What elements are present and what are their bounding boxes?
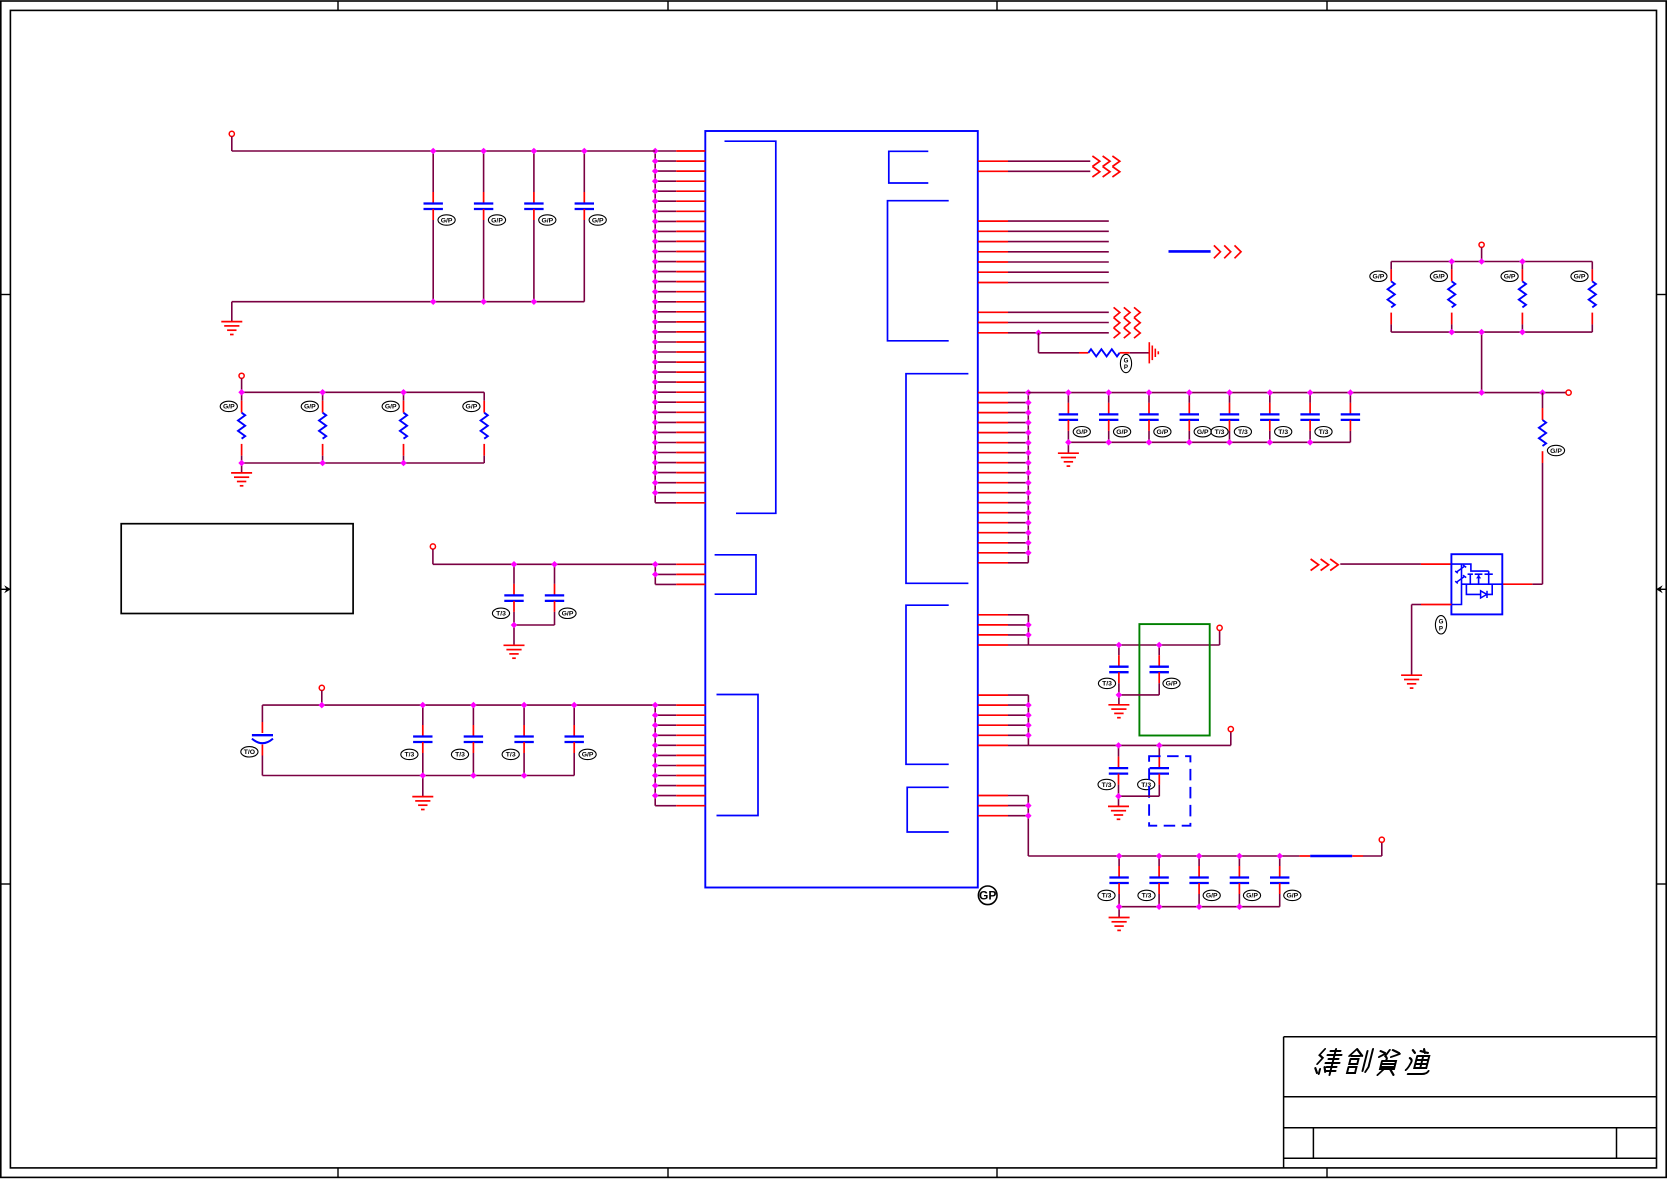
capacitor C7 polarized [241,705,273,775]
capacitor C4 [575,151,607,302]
svg-text:T/3: T/3 [1319,429,1329,436]
ground bottom bank [1109,918,1130,931]
svg-text:G/P: G/P [1433,274,1445,281]
wire middle caps ground link [514,624,555,626]
U1 right pin group 5 pins [978,615,1028,645]
junctions resistor bank top [238,389,406,396]
svg-text:T/3: T/3 [496,611,506,618]
U1 inner section bracket 2 [715,555,756,594]
capacitor C2 [474,151,506,302]
junctions left group 1 [652,148,659,496]
node long rail terminal [1566,390,1571,395]
resistor R6 [1370,262,1395,333]
capacitor C13 [1099,393,1131,443]
wire bottom bank ground rail [1119,906,1280,908]
capacitor C9 [451,705,483,775]
U1 right pin group 2 pins [978,221,1109,282]
junction R3 tap [1035,330,1042,337]
U1 right pin group 6 pins [978,695,1028,745]
svg-text:G/P: G/P [592,217,604,224]
wire resistor bank bottom rail [242,462,485,464]
capacitor C24 [1098,856,1129,907]
ground top-left bank [221,322,242,335]
ground Q1 source [1401,675,1422,688]
wire Q1 source to ground [1421,604,1451,606]
U1 inner section bracket 1 [725,141,776,513]
capacitor C22 [1098,745,1128,796]
inductor bead stub [1299,855,1310,857]
svg-text:T/3: T/3 [1215,429,1225,436]
svg-text:G/P: G/P [1157,429,1169,436]
junction green ground node [1116,692,1123,699]
U1 right pin group 3 pins [978,312,1109,333]
svg-text:G/P: G/P [1076,429,1088,436]
capacitor C15 [1180,393,1229,443]
svg-text:G/P: G/P [1504,274,1516,281]
dashed option box [1149,756,1190,826]
node green box terminal [1217,625,1222,630]
U1 right pin group 7 pins [978,796,1028,816]
resistor R1 [220,392,245,463]
bus stub blue off-page [1169,250,1211,253]
wire bus right group 7 [1027,796,1029,857]
U1 right pin group 4 pins [978,393,1028,563]
wire bus right group 5 [1027,615,1029,645]
wire long rail ground link [1068,441,1350,443]
junctions green rail [1116,642,1163,649]
svg-text:T/3: T/3 [404,752,414,759]
capacitor C27 [1230,856,1261,907]
capacitor C20 [1098,645,1128,695]
capacitor C11 [565,705,597,775]
wire R3 tap to resistor [1038,333,1040,353]
capacitor C18 [1300,393,1332,443]
svg-text:G/P: G/P [466,404,478,411]
svg-text:G/P: G/P [1246,893,1258,900]
junction bottom-left rail entry [319,702,326,709]
U1 inner section bracket 7 [906,605,949,764]
svg-text:GP: GP [979,889,996,903]
resistor R8 [1501,262,1526,333]
wire bus right group 6 [1027,695,1029,745]
junctions right group 4 [1025,389,1032,556]
wire bottom rail right [1028,855,1299,857]
junctions bottom-left rail [420,702,578,709]
node power terminal middle [430,544,435,549]
junctions right group 5 [1025,622,1032,639]
svg-text:T/3: T/3 [1278,429,1288,436]
U1 inner section bracket 4 [889,151,929,183]
junctions cap bank bottom [1065,439,1313,446]
svg-text:T/3: T/3 [1102,782,1112,789]
resistor R3 [382,392,407,463]
off-page connector middle right [1214,245,1241,258]
transistor Q1 [1451,554,1502,614]
wire top bank ground rail [232,301,585,303]
svg-text:G/P: G/P [304,404,316,411]
junctions top bank bottom [430,298,537,305]
svg-text:G/P: G/P [562,611,574,618]
wire bus right group 4 [1027,393,1029,563]
svg-text:T/3: T/3 [1102,681,1112,688]
wire bottom rail to terminal [1363,855,1382,857]
node power terminal bottom-left [319,685,324,690]
wire bus left group 2 [654,564,656,584]
U1 inner section bracket 3 [717,695,759,816]
capacitor C25 [1138,856,1169,907]
wire dashed caps ground link [1119,795,1160,797]
capacitor C8 [401,705,433,775]
junctions bottom bank ground rail [1116,903,1243,910]
svg-text:P: P [1439,625,1443,632]
svg-text:G/P: G/P [1550,448,1562,455]
svg-text:G/P: G/P [1373,274,1385,281]
wire bottom-left power rail [262,704,655,706]
capacitor C10 [502,705,534,775]
resistor R7 [1430,262,1455,333]
svg-text:G/P: G/P [541,217,553,224]
junction middle ground node [511,622,518,629]
svg-text:T/3: T/3 [1142,893,1152,900]
U1 inner section bracket 8 [907,787,949,832]
resistor R5 series [1088,349,1131,373]
chassis ground right [1149,342,1158,363]
junctions right res bank bottom [1448,329,1525,336]
green highlight box [1139,624,1209,735]
node rail 6 terminal [1228,727,1233,732]
capacitor C21 [1150,645,1181,695]
off-page connector Q1 gate [1311,559,1339,571]
wire bus left group 1 [654,151,656,503]
capacitor C1 [424,151,456,302]
ground bottom-left bank [412,797,433,810]
svg-text:G/P: G/P [1197,429,1209,436]
junctions middle rail [511,561,558,568]
U1 left pin group 1 pins [655,151,705,503]
wire green caps ground link [1119,694,1159,696]
svg-text:G/P: G/P [1574,274,1586,281]
company name text [1314,1049,1343,1075]
U1 left pin group 2 pins [655,564,705,584]
junctions top rail [430,148,588,155]
resistor R4 [463,392,488,463]
ground green caps [1108,705,1129,718]
svg-text:G/P: G/P [1206,893,1218,900]
capacitor C12 [1059,393,1091,443]
label Q1 designator [1435,616,1446,634]
U1 inner section bracket 5 [888,201,949,341]
resistor R9 [1571,262,1596,333]
svg-text:G/P: G/P [1116,429,1128,436]
node pull-up terminal right [1479,242,1484,247]
junctions resistor bank bottom [238,460,406,467]
U1 left pin group 3 pins [655,705,705,806]
ground dashed caps [1108,806,1129,819]
svg-text:T/O: T/O [244,749,255,756]
ground middle caps [504,645,525,658]
wire resistor to chassis ground [1120,352,1130,354]
junctions right group 6 [1025,702,1032,739]
svg-text:T/3: T/3 [455,752,465,759]
junction series resistor tap [1539,389,1546,396]
svg-text:G/P: G/P [1286,893,1298,900]
svg-text:G/P: G/P [441,217,453,224]
svg-text:G/P: G/P [491,217,503,224]
resistor R2 [301,392,326,463]
wire rail group 6 [1028,744,1230,746]
capacitor C28 [1270,856,1301,907]
junctions bottom-left ground rail [420,772,528,779]
label GP page marker [978,886,997,905]
off-page connector group 3 [1114,307,1141,338]
junction dashed ground node [1115,793,1122,800]
node VCC top-left terminal [229,131,234,136]
resistor R10 series to Q1 [1539,393,1565,585]
svg-text:G/P: G/P [1166,681,1178,688]
wire bus left group 3 [654,705,656,806]
wire rail to green box [1028,644,1219,646]
svg-text:P: P [1124,364,1128,371]
U1 right pin group 1 pins [978,161,1090,171]
junctions long rail caps [1065,389,1354,396]
wire resistor bank top rail [242,391,485,393]
capacitor C3 [524,151,556,302]
wire R10 to Q1 drain [1532,583,1542,585]
junctions left group 2 [652,561,659,578]
wire top power rail [232,150,655,152]
wire long power rail right [1028,392,1566,394]
svg-text:G/P: G/P [582,752,594,759]
wire middle power rail [433,563,655,565]
ground right cap bank [1058,453,1079,466]
off-page connector top right [1092,156,1119,177]
capacitor C17 [1260,393,1292,443]
svg-text:T/3: T/3 [506,752,516,759]
svg-text:G/P: G/P [385,404,397,411]
capacitor C23 [1138,745,1169,796]
capacitor C16 [1220,393,1252,443]
junctions bottom rail caps [1116,853,1283,860]
node pull-up terminal left [239,373,244,378]
node bottom rail terminal [1379,837,1384,842]
ground resistor bank [231,473,252,486]
wire right resistor bank bottom rail [1391,331,1592,333]
wire right resistor bank top rail [1391,261,1592,263]
block placeholder rectangle [121,524,353,614]
capacitor C6 [545,564,576,625]
capacitor C26 [1189,856,1220,907]
junction res bank drop on rail [1478,389,1485,396]
junctions rail 6 [1115,742,1162,749]
wire bottom-left ground rail [262,775,574,777]
capacitor C19 [1341,393,1360,443]
junctions right group 7 [1025,802,1032,819]
svg-text:T/3: T/3 [1238,429,1248,436]
junctions left group 3 [652,702,659,799]
svg-text:G/P: G/P [223,404,235,411]
capacitor C5 [492,564,523,625]
wire gate input [1340,563,1421,565]
U1 inner section bracket 6 [906,374,968,584]
svg-text:T/3: T/3 [1102,893,1112,900]
IC U1 body [705,131,978,888]
title block [1284,1037,1657,1168]
junctions right res bank top [1448,258,1525,265]
capacitor C14 [1139,393,1171,443]
